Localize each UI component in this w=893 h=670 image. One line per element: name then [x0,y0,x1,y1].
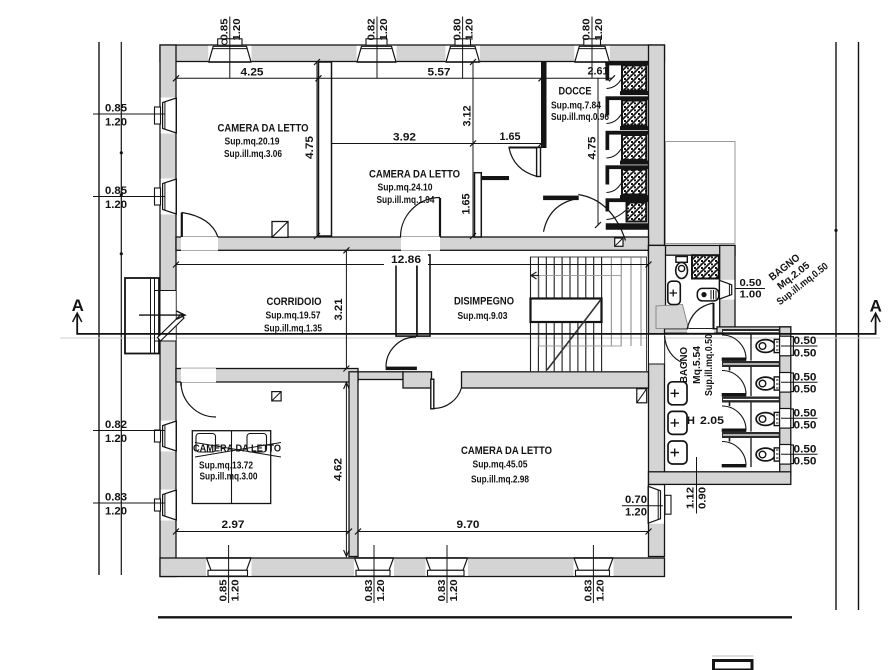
door nook leaf [537,148,541,177]
svg-text:1.20: 1.20 [105,199,127,211]
porch steps [125,278,159,354]
window bottom 0.85x1.20 [206,559,252,576]
window left 0.85x1.20 (b) [161,179,176,215]
svg-text:0.50: 0.50 [794,372,817,384]
door camera-grande leaf [431,379,434,409]
svg-text:Sup.mq.20.19: Sup.mq.20.19 [225,136,280,148]
opening door camera3 [181,368,216,382]
svg-text:0.50: 0.50 [794,384,817,396]
stairs direction arrow [531,272,539,279]
window dim left 0.85/1.20 a [93,113,165,115]
svg-text:12.86: 12.86 [391,254,421,266]
svg-text:1.20: 1.20 [105,506,127,518]
opening door camera2 [401,237,440,251]
window top 0.85x1.20 [208,46,251,62]
stairs landing handrail [531,299,602,323]
svg-text:0.50: 0.50 [794,456,817,468]
svg-text:BAGNO: BAGNO [678,347,690,383]
svg-text:0.83: 0.83 [363,579,375,601]
svg-text:1.20: 1.20 [378,18,390,40]
door disimpegno arc [386,337,416,367]
svg-text:2.61: 2.61 [588,66,609,78]
svg-text:1.20: 1.20 [105,433,127,445]
guide tick c [120,252,123,255]
dim line 4.75 docce [597,78,599,225]
svg-text:Sup.ill.mq.3.00: Sup.ill.mq.3.00 [200,471,258,483]
svg-text:1.20: 1.20 [105,117,127,129]
stairs flights [531,257,647,372]
svg-text:Sup.ill.mq.2.98: Sup.ill.mq.2.98 [471,474,529,486]
wall top exterior [160,45,665,62]
svg-text:Sup.ill.mq.0.96: Sup.ill.mq.0.96 [551,111,609,123]
door bagno piccolo arc [687,303,714,330]
dim line 3.21 [345,250,347,368]
svg-text:1.20: 1.20 [448,579,460,601]
toilet 4 [756,448,775,461]
svg-text:DISIMPEGNO: DISIMPEGNO [454,296,514,308]
legend line [712,655,754,657]
svg-text:3.12: 3.12 [462,106,474,127]
bed camera3 [192,431,270,504]
wc window dim 2 0.50/0.50 [781,381,818,383]
window dim bottom 0.83/1.20 b [446,545,448,603]
svg-text:2.97: 2.97 [222,519,245,531]
section line A-A [77,314,875,334]
svg-text:0.83: 0.83 [582,579,594,601]
entrance jamb top [155,290,176,292]
svg-text:1.20: 1.20 [464,18,476,40]
svg-text:A: A [870,297,882,316]
window left 0.83x1.20 [161,490,176,521]
svg-text:0.82: 0.82 [105,419,127,431]
vent box camera3 [272,392,281,401]
wall corridor north (bedrooms/corridoio) [176,237,649,250]
window dim top 0.82/1.20 [376,17,378,79]
wc window dim 3 0.50/0.50 [781,417,818,419]
door annex lobby arc [665,336,685,364]
svg-text:0.85: 0.85 [219,18,231,40]
door camera1 arc [182,213,218,238]
section arrow left [73,313,82,322]
toilet 2 [756,377,775,390]
site boundary line right outer [858,42,860,610]
wall nook vertical [475,173,482,237]
dimension chain top rooms [176,77,612,79]
svg-text:2.05: 2.05 [700,415,724,427]
svg-text:Sup.mq.7.84: Sup.mq.7.84 [551,100,601,112]
door disimpegno leaf [386,367,417,370]
svg-text:1.20: 1.20 [375,579,387,601]
wc window 1 [780,336,790,356]
svg-text:Sup.ill.mq.1.35: Sup.ill.mq.1.35 [264,323,322,335]
svg-text:0.85: 0.85 [105,185,127,197]
svg-text:Sup.ill.mq.0.50: Sup.ill.mq.0.50 [704,334,715,396]
entrance door leaf [158,315,185,342]
window top 0.80x1.20 (b) [574,46,610,62]
wc stall fronts [750,334,752,360]
washbasin 2 [668,411,687,434]
door camera2 arc [401,198,441,237]
passage jamb bottom [649,363,665,365]
svg-text:0.50: 0.50 [794,420,817,432]
window dim top 0.80/1.20 a [462,17,464,79]
svg-text:4.75: 4.75 [304,136,316,159]
door docce arc [544,199,578,232]
dim text 12.86 [384,254,428,266]
window bottom 0.83x1.20 (c) [574,559,614,576]
svg-text:0.83: 0.83 [436,579,448,601]
svg-text:Mq.5.54: Mq.5.54 [692,346,703,384]
washbasin 3 [668,441,687,464]
porch step line a [150,278,152,354]
opening door camera1 [181,237,218,251]
site boundary line left outer [98,42,100,575]
pier wedge bagno piccolo [656,305,689,329]
window dim left 0.82/1.20 [93,430,165,432]
svg-text:1.65: 1.65 [500,131,521,143]
dim line 3.12 [472,62,474,144]
docce bottom wall bar [606,224,648,230]
wc window dim 1 0.50/0.50 [781,345,818,347]
window dim top 0.85/1.20 [229,17,231,79]
svg-text:CORRIDOIO: CORRIDOIO [267,296,322,308]
opening entrance [161,291,176,342]
terrace outline [666,142,736,244]
window top 0.82x1.20 [357,46,397,62]
svg-text:3.92: 3.92 [393,132,416,144]
site boundary line left inner [120,42,122,575]
svg-text:DOCCE: DOCCE [559,86,592,98]
svg-text:0.90: 0.90 [697,487,709,509]
dim line 4.62 [345,382,347,557]
partition camera3/camera4 [349,372,358,557]
svg-text:CAMERA DA LETTO: CAMERA DA LETTO [218,123,309,135]
site boundary line right inner [835,42,837,610]
window bottom 0.83x1.20 (a) [354,559,394,576]
svg-text:0.50: 0.50 [794,335,817,347]
window dim bottom 0.83/1.20 a [373,545,375,603]
svg-text:9.70: 9.70 [457,519,480,531]
wc stall dividers and doors [722,361,780,367]
window dim bottom 0.85/1.20 [228,545,230,603]
wall nook horizontal [481,177,508,180]
svg-text:1.65: 1.65 [461,194,473,215]
passage jamb top [649,333,665,335]
svg-text:0.70: 0.70 [625,494,647,506]
svg-text:3.21: 3.21 [333,299,345,321]
window dim bottom 0.83/1.20 c [592,545,594,603]
wall camera-grande north [462,372,649,388]
door camera2 leaf [439,198,441,237]
label bagno piccolo rotated [760,241,831,308]
partition camera1/camera2 [319,62,332,236]
svg-text:0.50: 0.50 [740,277,762,289]
svg-text:1.20: 1.20 [593,18,605,40]
svg-text:0.50: 0.50 [794,347,817,359]
guide tick b [120,193,123,196]
docce shower stalls [605,62,648,66]
svg-text:0.80: 0.80 [581,18,593,40]
window dim left 0.85/1.20 b [93,196,165,198]
door nook arc [509,148,537,177]
sink bagno piccolo [668,281,681,304]
window top 0.80x1.20 (a) [446,46,481,62]
wc window 3 [780,409,790,429]
wall right exterior [649,45,665,557]
svg-text:Sup.mq.19.57: Sup.mq.19.57 [266,310,321,322]
cupboard corridoio right [417,255,430,336]
wall corridor south thin part [358,372,403,380]
svg-text:Sup.ill.mq.1.94: Sup.ill.mq.1.94 [377,194,435,206]
wall annex bottom [649,472,791,485]
svg-text:Sup.mq.45.05: Sup.mq.45.05 [473,459,528,471]
partition camera2/docce [542,62,547,148]
svg-text:CAMERA DA LETTO: CAMERA DA LETTO [369,169,460,181]
window bottom 0.83x1.20 (b) [426,559,469,576]
svg-text:1.12: 1.12 [685,487,697,509]
porch step line b [154,278,156,354]
dim line 9.70 [358,531,649,533]
svg-text:A: A [72,296,84,315]
wc window 2 [780,373,790,393]
wall corridor south step [403,372,432,388]
door docce inner arc [578,195,625,241]
wall wc right [780,327,791,475]
window right 0.70x1.20 [649,486,664,524]
wall nook top line [509,147,542,149]
guide tick a [120,151,123,154]
svg-text:0.50: 0.50 [794,444,817,456]
svg-text:0.80: 0.80 [451,18,463,40]
door camera3 arc [181,382,216,417]
entrance jamb bottom [155,340,176,342]
section arrow right [871,313,880,322]
svg-text:4.25: 4.25 [241,67,264,79]
wc window dim 4 0.50/0.50 [781,453,818,455]
shower bagno piccolo [692,255,719,278]
svg-text:Sup.mq.24.10: Sup.mq.24.10 [378,182,433,194]
window dim right 0.70/1.20 [622,505,663,507]
entrance arrow [139,311,185,319]
wall left exterior [160,45,176,577]
washbasin 1 [668,382,687,405]
svg-text:1.00: 1.00 [740,289,762,301]
stairs direction diagonal [547,300,601,370]
bidet bagno piccolo [697,288,719,301]
opening door bagno piccolo [687,329,714,333]
door docce leaf [544,196,579,200]
window left 0.85x1.20 (a) [161,98,176,134]
window dim top 0.80/1.20 b [591,17,593,79]
wall bagno piccolo south [665,329,736,334]
svg-text:0.85: 0.85 [218,579,230,601]
svg-text:4.75: 4.75 [587,137,599,160]
svg-text:0.82: 0.82 [366,18,378,40]
toilet 3 [756,413,775,426]
dim line 2.97 [176,531,349,533]
wall bagno grande top right [717,327,791,333]
wc stall top wall [722,329,780,334]
guide tick d [834,229,837,232]
window dim left 0.83/1.20 [93,502,165,504]
svg-text:5.57: 5.57 [428,67,451,79]
svg-text:4.62: 4.62 [333,458,345,481]
svg-text:1.20: 1.20 [230,579,242,601]
dim line 3.92+1.65 [332,143,542,145]
svg-text:CAMERA DA LETTO: CAMERA DA LETTO [193,443,281,455]
svg-text:0.83: 0.83 [105,492,127,504]
dim 1.12/0.90 annex [696,457,698,514]
svg-text:1.20: 1.20 [594,579,606,601]
wall annex left [649,245,666,334]
faint horizontal guide line [60,337,880,339]
toilet 1 [756,340,775,353]
door camera3 leaf [180,382,182,386]
wc window 4 [780,445,790,465]
dim line 12.86 [176,264,649,266]
wall corridor south left part [176,369,358,383]
wc bagno piccolo [676,257,687,263]
vent box disimpegno [615,238,623,246]
dim line 1.65 v [472,144,474,237]
dim line 4.75 camera1 [316,62,318,236]
opening passage to annex [649,334,664,364]
window dim bagno piccolo 0.50/1.00 [735,288,765,290]
svg-text:0.85: 0.85 [105,103,127,115]
door camera-grande arc [434,388,462,409]
vent box camera1 [272,222,288,238]
svg-text:1.20: 1.20 [625,507,647,519]
door bagno piccolo leaf [713,303,715,330]
ground line bottom [158,616,792,618]
wall bagno piccolo right [720,245,735,333]
svg-text:CAMERA DA LETTO: CAMERA DA LETTO [461,445,552,457]
wall annex top (bagno piccolo) [649,245,736,255]
cupboard corridoio left [396,255,417,336]
wall bottom exterior [160,558,665,577]
svg-text:0.50: 0.50 [794,408,817,420]
svg-text:Sup.ill.mq.3.06: Sup.ill.mq.3.06 [224,148,282,160]
window left 0.82x1.20 [161,421,176,452]
window bagno piccolo 0.50x1.00 [720,280,734,300]
legend box [714,661,753,670]
svg-text:H: H [687,415,695,427]
svg-text:1.20: 1.20 [231,18,243,40]
svg-text:Sup.mq.9.03: Sup.mq.9.03 [458,310,508,322]
vent box camera-grande [637,389,647,403]
door camera1 leaf [181,213,183,238]
